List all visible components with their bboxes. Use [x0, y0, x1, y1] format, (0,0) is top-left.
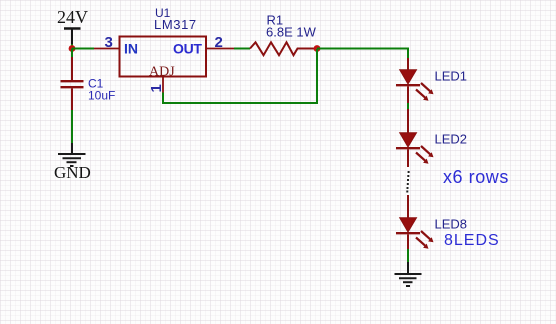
svg-text:IN: IN [124, 41, 138, 57]
LED2 [396, 109, 467, 167]
ground GND [54, 143, 91, 182]
svg-text:LED2: LED2 [435, 132, 468, 147]
svg-text:LED1: LED1 [435, 69, 468, 84]
resistor R1 6.8E 1W [250, 13, 317, 56]
wire LED8 to ground [407, 249, 409, 262]
svg-text:24V: 24V [57, 7, 88, 27]
svg-text:2: 2 [215, 34, 223, 51]
svg-text:OUT: OUT [173, 41, 202, 57]
wire C1 to GND [71, 110, 73, 143]
node: 24V rail junction [69, 45, 76, 52]
wire LED1 to LED2 [407, 103, 409, 109]
wire 24V to junction [71, 44, 73, 48]
svg-text:8LEDS: 8LEDS [444, 232, 500, 249]
svg-text:LED8: LED8 [435, 217, 468, 232]
svg-text:10uF: 10uF [88, 89, 115, 103]
svg-text:LM317: LM317 [154, 17, 197, 32]
wire junction to LED column [317, 49, 409, 59]
svg-text:x6 rows: x6 rows [443, 167, 509, 187]
LED1 [396, 58, 467, 103]
pin 2 (OUT) [206, 34, 234, 51]
regulator U1 LM317 [120, 6, 207, 80]
capacitor C1 10uF [61, 57, 116, 110]
wire OUT pin to R1 [234, 48, 250, 50]
svg-text:1: 1 [148, 84, 165, 92]
svg-text:3: 3 [105, 34, 113, 51]
ground (LED return) [395, 262, 422, 286]
dotted continuation between LED2 and LED8 [406, 171, 409, 193]
svg-text:GND: GND [54, 163, 91, 182]
power port 24V [57, 7, 88, 44]
pin 1 (ADJ) [148, 77, 165, 93]
wire junction down to C1 [71, 49, 73, 59]
node: R1 output junction [314, 45, 321, 52]
wire ADJ feedback: down from pin 1, right, up to junction [162, 49, 318, 104]
LED8 [396, 195, 467, 249]
svg-text:6.8E 1W: 6.8E 1W [266, 25, 317, 40]
wire junction to IN pin [72, 48, 94, 50]
pin 3 (IN) [94, 34, 120, 51]
